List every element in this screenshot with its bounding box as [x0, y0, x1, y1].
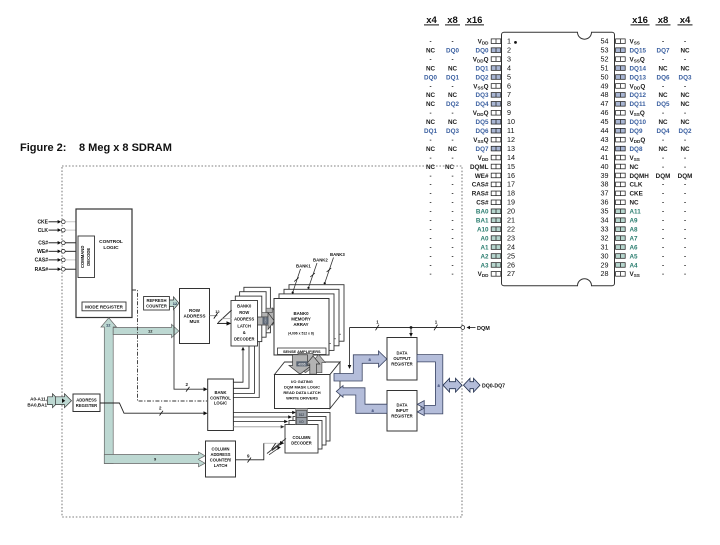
- wire: bank control to column decoder 0: [233, 411, 296, 414]
- svg-text:REGISTER: REGISTER: [391, 362, 412, 367]
- svg-text:DQ0: DQ0: [446, 47, 459, 54]
- pin 24 (A1): [429, 242, 515, 251]
- svg-text:33: 33: [601, 224, 609, 233]
- wire: bank control to row latch 1: [233, 342, 250, 388]
- pin 32 (A7): [601, 233, 687, 242]
- svg-text:6: 6: [507, 81, 511, 90]
- svg-text:A7: A7: [630, 235, 639, 242]
- svg-text:REFRESH: REFRESH: [146, 298, 166, 303]
- svg-text:DATA: DATA: [396, 403, 407, 408]
- svg-text:512: 512: [299, 413, 305, 417]
- column address counter/latch block: [206, 441, 236, 477]
- svg-text:DQ3: DQ3: [446, 128, 459, 135]
- pin 28 (VSS): [601, 269, 687, 278]
- svg-text:DATA: DATA: [396, 351, 407, 356]
- address register block: [73, 394, 100, 412]
- pin 20 (BA0): [429, 207, 515, 216]
- input RAS# with buffer: [35, 267, 78, 273]
- svg-text:COLUMN: COLUMN: [212, 447, 230, 452]
- svg-text:-: -: [662, 262, 664, 269]
- svg-text:CLK: CLK: [38, 228, 49, 234]
- svg-text:-: -: [684, 191, 686, 198]
- svg-text:NC: NC: [680, 146, 690, 153]
- svg-text:I/O: I/O: [299, 420, 304, 424]
- svg-text:24: 24: [507, 242, 515, 251]
- svg-text:-: -: [662, 137, 664, 144]
- svg-text:-: -: [429, 56, 431, 63]
- pin 22 (A10): [429, 224, 515, 233]
- bus: I/O gating to column decoder (gray): [296, 409, 308, 425]
- svg-text:-: -: [662, 164, 664, 171]
- column header x4 (left): [424, 15, 439, 26]
- svg-text:VSSQ: VSSQ: [630, 110, 645, 117]
- pin 39 (DQMH): [601, 171, 693, 180]
- svg-text:DQ1: DQ1: [424, 128, 437, 135]
- svg-text:x16: x16: [632, 15, 648, 26]
- bus: data input register to I/O gating (8): [336, 386, 387, 414]
- bus: data output register to DQ pads: [417, 355, 443, 416]
- pin 47 (DQ11): [601, 99, 690, 108]
- svg-text:-: -: [684, 209, 686, 216]
- svg-text:DQ3: DQ3: [476, 92, 489, 99]
- svg-text:-: -: [429, 182, 431, 189]
- svg-text:COUNTER/: COUNTER/: [210, 458, 232, 463]
- svg-text:-: -: [451, 209, 453, 216]
- svg-text:VSS: VSS: [630, 271, 640, 278]
- pin 8 (DQ4): [426, 99, 511, 108]
- svg-text:31: 31: [601, 242, 609, 251]
- wire: bank control to column decoder 1: [233, 415, 292, 418]
- svg-text:CLK: CLK: [630, 182, 643, 189]
- svg-text:A9: A9: [630, 218, 639, 225]
- svg-text:13: 13: [507, 144, 515, 153]
- svg-text:DQ12: DQ12: [630, 92, 647, 99]
- svg-text:COMMAND: COMMAND: [80, 246, 85, 268]
- svg-text:REGISTER: REGISTER: [76, 403, 97, 408]
- svg-text:-: -: [662, 110, 664, 117]
- svg-text:DQ1: DQ1: [446, 74, 459, 81]
- svg-text:RAS#: RAS#: [472, 191, 489, 198]
- column header x8 (left): [445, 15, 460, 26]
- svg-text:DQM: DQM: [656, 173, 671, 180]
- svg-text:26: 26: [507, 260, 515, 269]
- bus: I/O gating to data output register (8): [334, 351, 387, 381]
- svg-text:WE#: WE#: [475, 173, 489, 180]
- svg-text:CONTROL: CONTROL: [210, 395, 231, 400]
- svg-text:NC: NC: [426, 101, 436, 108]
- svg-text:DQ5: DQ5: [476, 119, 489, 126]
- svg-text:-: -: [684, 39, 686, 46]
- svg-text:DQ6: DQ6: [657, 74, 670, 81]
- svg-text:DQ6: DQ6: [476, 128, 489, 135]
- svg-text:RAS#: RAS#: [35, 267, 49, 273]
- svg-text:DQM: DQM: [678, 173, 693, 180]
- pin 46 (VSSQ): [601, 108, 687, 117]
- input CKE with buffer: [37, 220, 76, 226]
- pin 38 (CLK): [601, 180, 687, 189]
- svg-text:12: 12: [507, 135, 515, 144]
- svg-text:BANK: BANK: [214, 390, 226, 395]
- wire: DQM input: [348, 320, 491, 370]
- svg-text:VSSQ: VSSQ: [473, 137, 488, 144]
- column header x16 (left): [465, 15, 484, 26]
- svg-text:7: 7: [507, 90, 511, 99]
- svg-text:A2: A2: [480, 253, 489, 260]
- svg-text:-: -: [451, 253, 453, 260]
- svg-text:-: -: [429, 110, 431, 117]
- svg-text:34: 34: [601, 216, 609, 225]
- pin 6 (VSSQ): [429, 81, 511, 90]
- svg-text:A5: A5: [630, 253, 639, 260]
- svg-text:NC: NC: [630, 200, 640, 207]
- svg-text:49: 49: [601, 81, 609, 90]
- svg-text:VDDQ: VDDQ: [473, 110, 489, 117]
- control logic block: [76, 209, 132, 318]
- svg-text:VDD: VDD: [478, 39, 490, 46]
- svg-text:-: -: [662, 271, 664, 278]
- pin 7 (DQ3): [426, 90, 511, 99]
- svg-text:-: -: [684, 244, 686, 251]
- pin 50 (DQ13): [601, 72, 692, 81]
- svg-text:38: 38: [601, 180, 609, 189]
- svg-text:4: 4: [507, 63, 511, 72]
- svg-text:11: 11: [507, 126, 514, 135]
- wire: bank control to row latch 2: [233, 338, 256, 393]
- pin 31 (A6): [601, 242, 687, 251]
- I/O gating / DQM mask logic block: [275, 362, 341, 409]
- svg-text:DECODER: DECODER: [291, 441, 312, 446]
- svg-text:x8: x8: [658, 15, 669, 26]
- svg-text:-: -: [684, 253, 686, 260]
- svg-text:VDDQ: VDDQ: [473, 56, 489, 63]
- svg-text:15: 15: [507, 162, 515, 171]
- svg-text:x4: x4: [680, 15, 691, 26]
- svg-text:-: -: [684, 110, 686, 117]
- svg-text:1: 1: [507, 37, 511, 46]
- pin 9 (VDDQ): [429, 108, 511, 117]
- svg-text:23: 23: [507, 233, 515, 242]
- svg-text:NC: NC: [426, 119, 436, 126]
- svg-text:LOGIC: LOGIC: [214, 401, 227, 406]
- svg-text:BA1: BA1: [476, 218, 489, 225]
- svg-text:DQ13: DQ13: [630, 74, 647, 81]
- wire: bank address (2) to bank control logic: [100, 403, 208, 416]
- pin 5 (DQ2): [424, 72, 511, 81]
- mode register block: [82, 302, 126, 311]
- svg-text:3: 3: [507, 54, 511, 63]
- svg-text:READ DATA LATCH: READ DATA LATCH: [283, 390, 320, 395]
- input CAS# with buffer: [35, 258, 76, 264]
- svg-text:-: -: [662, 218, 664, 225]
- svg-text:9: 9: [507, 108, 511, 117]
- svg-text:BANK1: BANK1: [296, 264, 311, 269]
- column header x16 (right): [631, 15, 650, 26]
- input CLK with buffer: [38, 228, 76, 234]
- pin 37 (CKE): [601, 189, 687, 198]
- svg-text:-: -: [662, 191, 664, 198]
- svg-text:-: -: [684, 218, 686, 225]
- svg-text:-: -: [429, 209, 431, 216]
- svg-text:16: 16: [507, 171, 515, 180]
- svg-text:VDDQ: VDDQ: [630, 83, 646, 90]
- svg-text:-: -: [662, 209, 664, 216]
- input CS# with buffer: [38, 241, 78, 247]
- svg-text:30: 30: [601, 251, 609, 260]
- svg-text:CKE: CKE: [630, 191, 643, 198]
- svg-text:-: -: [662, 235, 664, 242]
- svg-text:-: -: [451, 173, 453, 180]
- svg-text:COLUMN: COLUMN: [293, 435, 311, 440]
- pin 54 (VSS): [601, 37, 687, 46]
- pin 36 (NC): [601, 198, 687, 207]
- svg-text:NC: NC: [448, 92, 458, 99]
- pin 23 (A0): [429, 233, 515, 242]
- pin 30 (A5): [601, 251, 687, 260]
- svg-text:DQ2: DQ2: [446, 101, 459, 108]
- column header x4 (right): [678, 15, 693, 26]
- node BANK1 label: [292, 264, 312, 294]
- svg-text:-: -: [662, 39, 664, 46]
- svg-text:WRITE DRIVERS: WRITE DRIVERS: [286, 396, 318, 401]
- bus: latch to memory array (4096, gray 3D arrow): [258, 304, 283, 330]
- svg-text:ROW: ROW: [239, 310, 249, 315]
- svg-text:-: -: [451, 191, 453, 198]
- svg-text:-: -: [684, 200, 686, 207]
- svg-text:VSS: VSS: [630, 39, 640, 46]
- svg-text:5: 5: [507, 72, 511, 81]
- wire: bank control to row latch 0: [233, 347, 244, 382]
- column header x8 (right): [656, 15, 671, 26]
- svg-text:-: -: [451, 83, 453, 90]
- svg-text:DQ0: DQ0: [424, 74, 437, 81]
- svg-text:A0: A0: [480, 235, 489, 242]
- svg-text:35: 35: [601, 207, 609, 216]
- svg-text:DQ2: DQ2: [476, 74, 489, 81]
- svg-text:-: -: [662, 253, 664, 260]
- svg-text:MUX: MUX: [190, 319, 200, 324]
- node BANK3 label: [324, 252, 346, 285]
- svg-text:ADDRESS: ADDRESS: [183, 314, 205, 319]
- svg-text:-: -: [451, 39, 453, 46]
- svg-text:WE#: WE#: [37, 249, 48, 255]
- pin 34 (A9): [601, 216, 687, 225]
- svg-text:I/O GATING: I/O GATING: [291, 379, 313, 384]
- input WE# with buffer: [37, 249, 78, 255]
- data input register block: [387, 391, 417, 432]
- svg-text:-: -: [662, 56, 664, 63]
- pin 18 (RAS#): [429, 189, 515, 198]
- svg-text:-: -: [451, 226, 453, 233]
- svg-text:DQM MASK LOGIC: DQM MASK LOGIC: [284, 385, 320, 390]
- svg-text:52: 52: [601, 54, 609, 63]
- input A0-A11, BA0, BA1: [27, 394, 71, 408]
- svg-text:x16: x16: [467, 15, 483, 26]
- svg-text:NC: NC: [426, 164, 436, 171]
- svg-text:47: 47: [601, 99, 609, 108]
- svg-text:-: -: [684, 271, 686, 278]
- svg-text:36: 36: [601, 198, 609, 207]
- svg-text:-: -: [429, 262, 431, 269]
- svg-text:CS#: CS#: [38, 241, 48, 247]
- svg-text:-: -: [684, 155, 686, 162]
- bank0 column decoder block: [285, 425, 318, 454]
- svg-text:-: -: [662, 200, 664, 207]
- svg-text:LOGIC: LOGIC: [103, 245, 119, 251]
- svg-text:-: -: [451, 262, 453, 269]
- svg-text:VDDQ: VDDQ: [630, 137, 646, 144]
- svg-text:-: -: [684, 56, 686, 63]
- pin 48 (DQ12): [601, 90, 690, 99]
- data output register block: [387, 338, 417, 381]
- svg-text:22: 22: [507, 224, 515, 233]
- svg-text:CAS#: CAS#: [472, 182, 489, 189]
- wire: mode register control (dash-dot) to bank control logic: [132, 290, 207, 401]
- svg-text:42: 42: [601, 144, 609, 153]
- svg-text:12: 12: [148, 328, 153, 333]
- svg-text:-: -: [429, 39, 431, 46]
- svg-text:DQ9: DQ9: [630, 128, 643, 135]
- svg-text:NC: NC: [658, 92, 668, 99]
- DQ0-DQ7 bidirectional pads: [443, 378, 505, 392]
- svg-text:DQ15: DQ15: [630, 47, 647, 54]
- svg-text:20: 20: [507, 207, 515, 216]
- pin 13 (DQ7): [426, 144, 515, 153]
- svg-text:-: -: [451, 271, 453, 278]
- pin 49 (VDDQ): [601, 81, 687, 90]
- svg-text:NC: NC: [658, 146, 668, 153]
- svg-text:-: -: [451, 110, 453, 117]
- svg-text:-: -: [451, 56, 453, 63]
- svg-text:37: 37: [601, 189, 609, 198]
- svg-text:CS#: CS#: [476, 200, 489, 207]
- svg-text:ARRAY: ARRAY: [293, 322, 308, 327]
- svg-text:-: -: [429, 173, 431, 180]
- svg-text:DQ11: DQ11: [630, 101, 647, 108]
- svg-text:46: 46: [601, 108, 609, 117]
- svg-text:A6: A6: [630, 244, 639, 251]
- svg-text:DQ0-DQ7: DQ0-DQ7: [482, 384, 505, 390]
- pin 52 (VSSQ): [601, 54, 687, 63]
- svg-text:54: 54: [601, 37, 609, 46]
- svg-text:27: 27: [507, 269, 515, 278]
- svg-text:-: -: [451, 137, 453, 144]
- svg-text:-: -: [684, 182, 686, 189]
- svg-text:REGISTER: REGISTER: [391, 414, 412, 419]
- svg-text:12: 12: [106, 323, 111, 328]
- bus: refresh counter to row address mux (12): [169, 297, 179, 310]
- svg-text:17: 17: [507, 180, 515, 189]
- svg-text:DQ14: DQ14: [630, 65, 647, 72]
- svg-text:-: -: [684, 137, 686, 144]
- svg-text:50: 50: [601, 72, 609, 81]
- svg-text:VSSQ: VSSQ: [473, 83, 488, 90]
- svg-text:-: -: [662, 226, 664, 233]
- svg-text:-: -: [684, 235, 686, 242]
- svg-text:41: 41: [601, 153, 609, 162]
- svg-text:-: -: [451, 218, 453, 225]
- svg-text:CKE: CKE: [37, 220, 48, 226]
- svg-text:DQ3: DQ3: [679, 74, 692, 81]
- svg-text:INPUT: INPUT: [396, 408, 409, 413]
- svg-text:DQMH: DQMH: [630, 173, 650, 180]
- svg-text:BANK3: BANK3: [330, 252, 345, 257]
- svg-text:VSS: VSS: [630, 155, 640, 162]
- svg-text:-: -: [429, 137, 431, 144]
- svg-text:(4,096 x 512 x 8): (4,096 x 512 x 8): [288, 332, 314, 336]
- svg-text:ADDRESS: ADDRESS: [234, 317, 254, 322]
- svg-text:28: 28: [601, 269, 609, 278]
- svg-text:12: 12: [215, 309, 220, 314]
- pin 51 (DQ14): [601, 63, 690, 72]
- svg-text:DQ10: DQ10: [630, 119, 647, 126]
- pin 40 (NC): [601, 162, 687, 171]
- svg-text:51: 51: [601, 63, 609, 72]
- svg-text:DQ7: DQ7: [657, 47, 670, 54]
- pin 3 (VDDQ): [429, 54, 511, 63]
- sense amplifiers block: [278, 348, 327, 355]
- chip boundary (dashed): [62, 166, 462, 517]
- svg-text:-: -: [429, 83, 431, 90]
- svg-text:A1: A1: [480, 244, 489, 251]
- svg-text:-: -: [684, 226, 686, 233]
- svg-text:VDD: VDD: [478, 271, 490, 278]
- svg-text:10: 10: [507, 117, 515, 126]
- svg-text:-: -: [429, 155, 431, 162]
- svg-text:DQ2: DQ2: [679, 128, 692, 135]
- svg-text:NC: NC: [680, 47, 690, 54]
- svg-text:-: -: [451, 244, 453, 251]
- pin 4 (DQ1): [426, 63, 511, 72]
- svg-text:44: 44: [601, 126, 609, 135]
- svg-text:DQ1: DQ1: [476, 65, 489, 72]
- pin 27 (VDD): [429, 269, 515, 278]
- svg-text:DECODE: DECODE: [86, 248, 91, 266]
- row address mux block: [180, 289, 210, 344]
- svg-text:A10: A10: [477, 226, 489, 233]
- wire: bank control to column decoder 3 (gray): [233, 425, 284, 428]
- svg-text:NC: NC: [680, 119, 690, 126]
- svg-text:A8: A8: [630, 226, 639, 233]
- svg-text:-: -: [429, 218, 431, 225]
- svg-text:VSSQ: VSSQ: [630, 56, 645, 63]
- pin 15 (DQML): [426, 162, 515, 171]
- svg-text:NC: NC: [426, 47, 436, 54]
- pin 16 (WE#): [429, 171, 515, 180]
- svg-text:-: -: [429, 226, 431, 233]
- svg-text:NC: NC: [426, 65, 436, 72]
- pin 35 (A11): [601, 207, 687, 216]
- svg-text:-: -: [429, 191, 431, 198]
- pin 43 (VDDQ): [601, 135, 687, 144]
- bank0 memory array block: [274, 299, 329, 356]
- svg-text:-: -: [429, 200, 431, 207]
- pin 2 (DQ0): [426, 45, 511, 54]
- command decode block: [78, 236, 95, 278]
- svg-text:&: &: [243, 330, 246, 335]
- svg-text:NC: NC: [680, 92, 690, 99]
- svg-text:4096: 4096: [264, 317, 268, 324]
- svg-text:NC: NC: [448, 146, 458, 153]
- svg-text:-: -: [429, 244, 431, 251]
- svg-text:NC: NC: [426, 92, 436, 99]
- svg-text:-: -: [451, 182, 453, 189]
- svg-text:DQ7: DQ7: [476, 146, 489, 153]
- svg-text:BA0,BA1: BA0,BA1: [27, 402, 47, 407]
- svg-text:x4: x4: [426, 15, 437, 26]
- svg-text:18: 18: [507, 189, 515, 198]
- svg-text:53: 53: [601, 45, 609, 54]
- svg-text:4096: 4096: [298, 362, 306, 366]
